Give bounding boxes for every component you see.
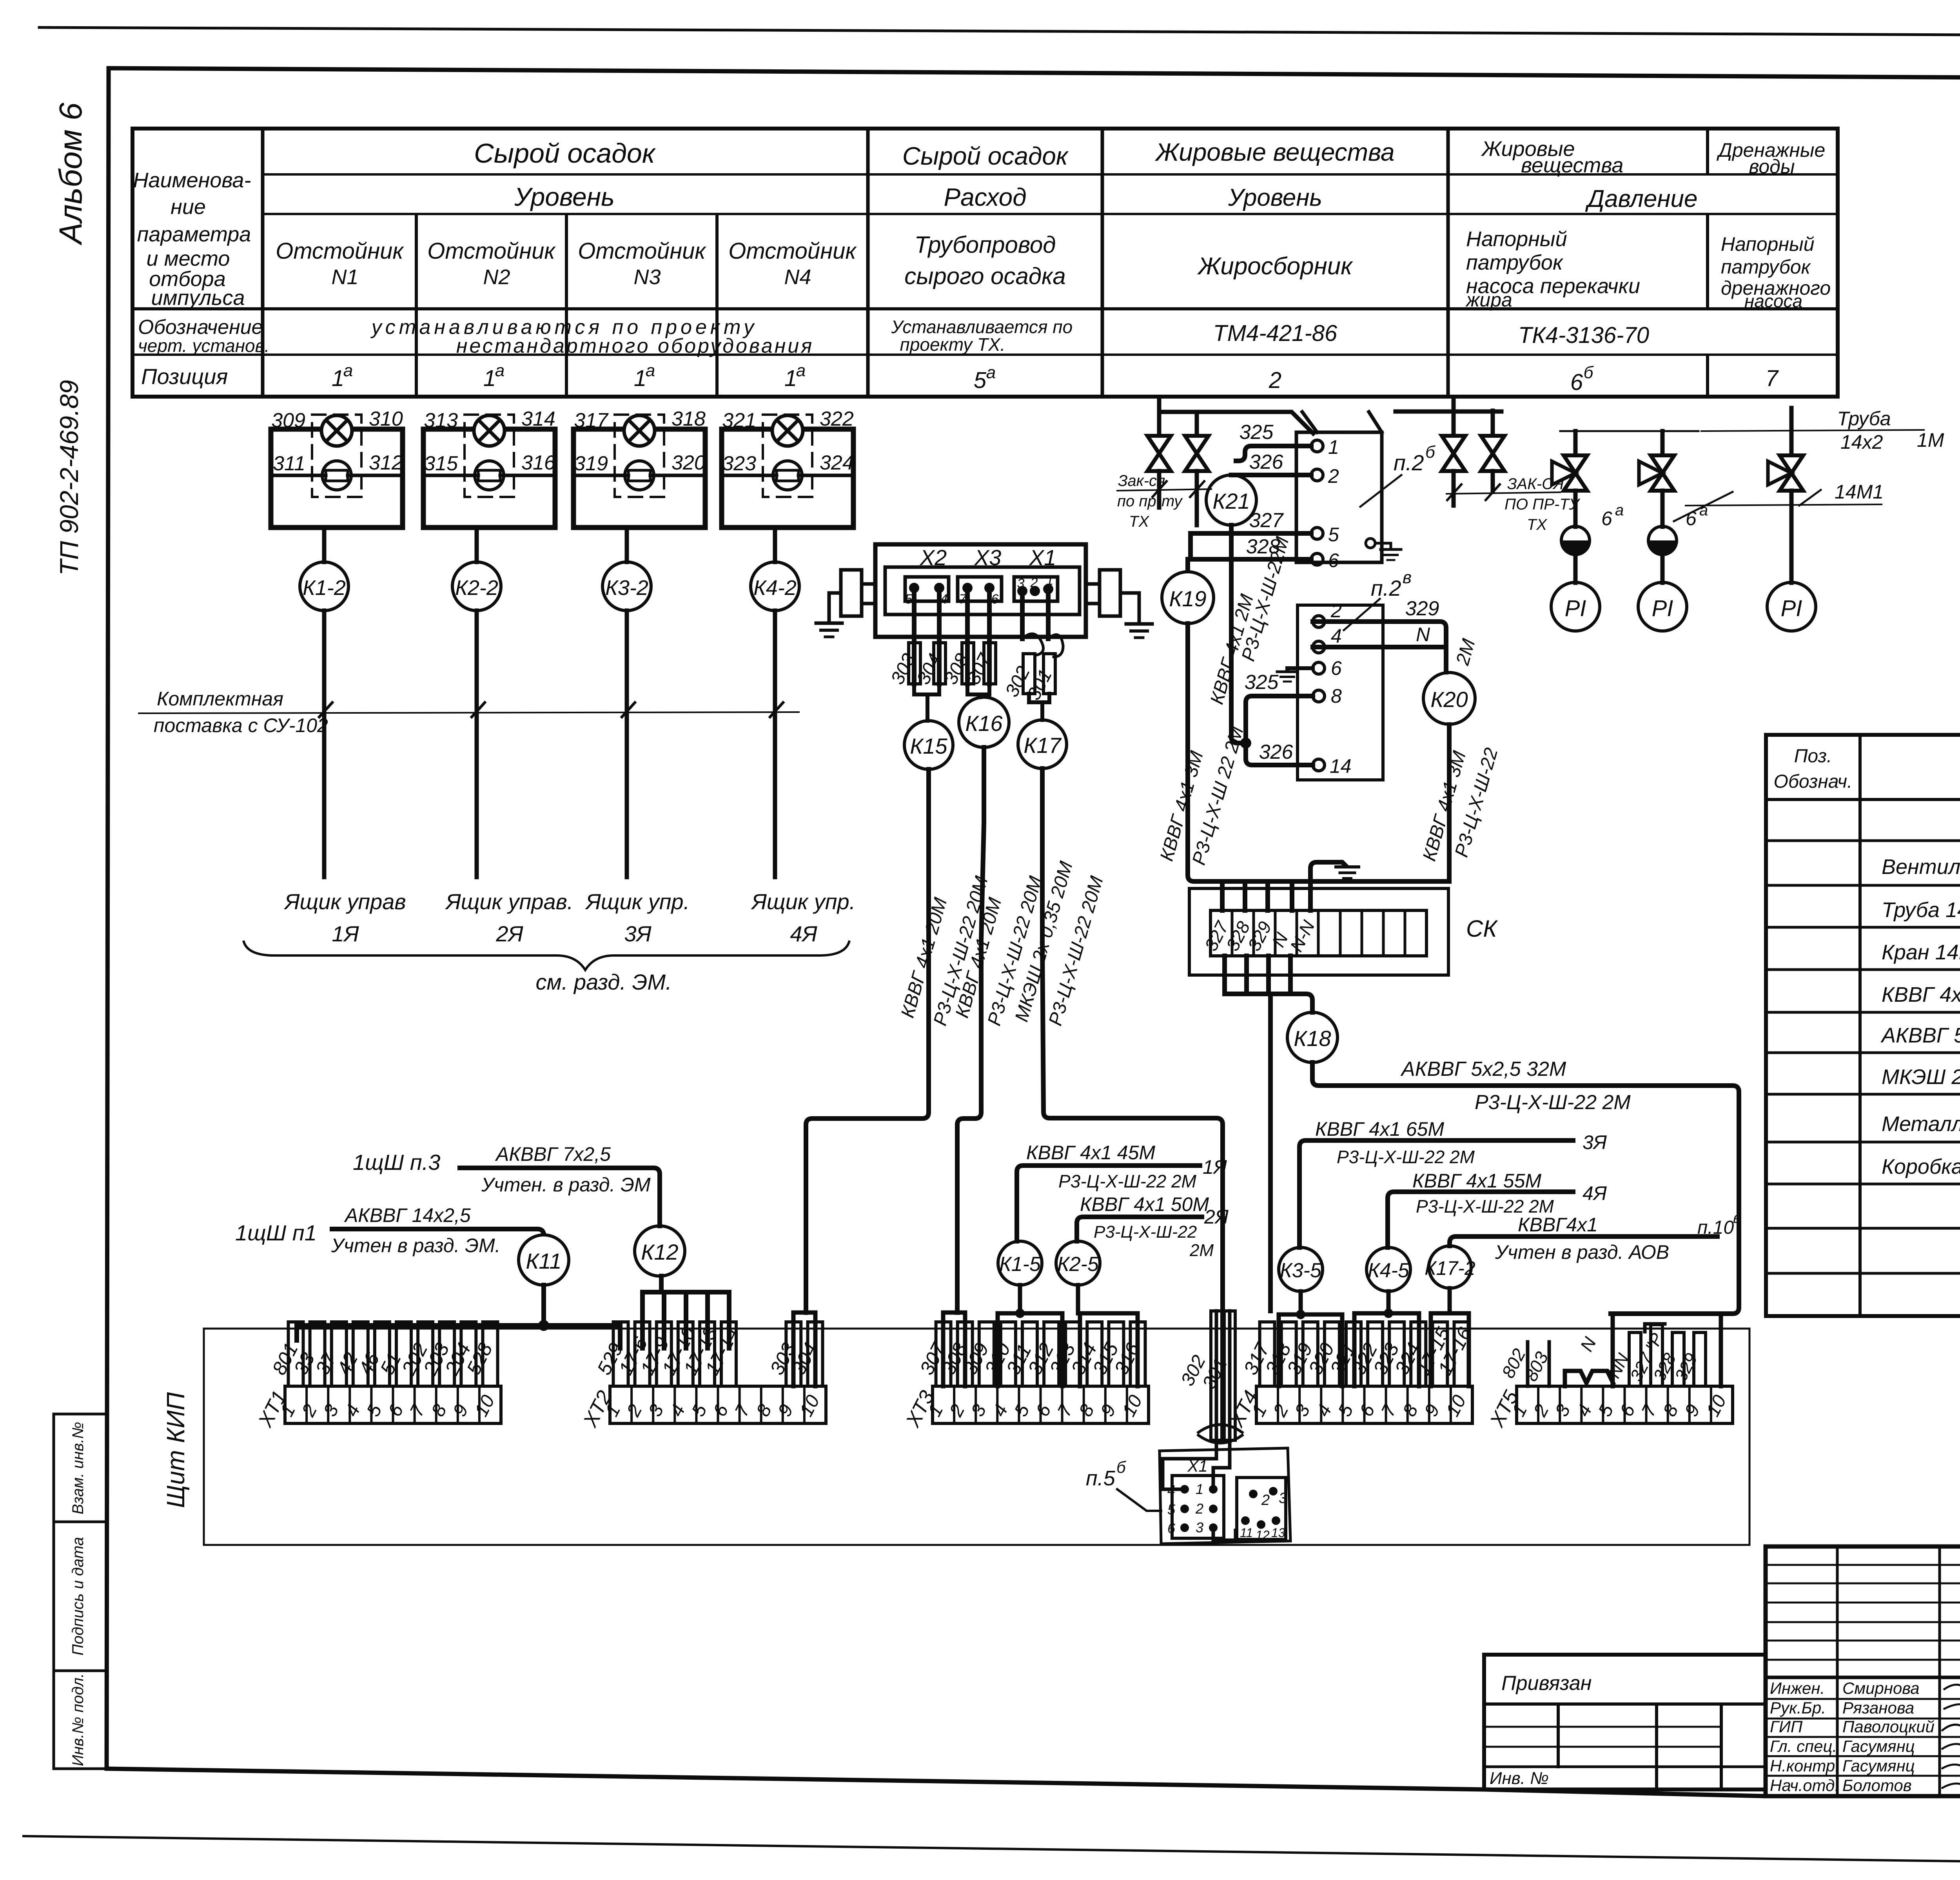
- condensate pot 2: [1648, 526, 1677, 555]
- header table column lines: [261, 129, 265, 397]
- ground symbol right of connector: [1126, 622, 1152, 626]
- left stamp box Инв.№ подл.: [54, 1671, 107, 1769]
- lamp HL 321/322: [772, 415, 803, 446]
- svg-text:Ящик упр.: Ящик упр.: [585, 889, 690, 914]
- X1 pins 4 5 6: [1180, 1485, 1189, 1494]
- svg-text:Нач.отд.: Нач.отд.: [1770, 1776, 1839, 1795]
- cable marker К4-2: [751, 562, 799, 611]
- svg-text:АКВВГ 5х2,5 32М: АКВВГ 5х2,5 32М: [1400, 1058, 1566, 1081]
- svg-text:КВВГ 4х1 50М: КВВГ 4х1 50М: [1080, 1193, 1209, 1215]
- wire tag 308 on ХТ3:2: [958, 1322, 973, 1386]
- BOM header row line: [1766, 798, 1960, 801]
- pin 1 п.2б: [1311, 440, 1323, 452]
- svg-text:РI: РI: [1781, 596, 1802, 621]
- svg-text:Гасумянц: Гасумянц: [1842, 1757, 1915, 1775]
- wire 325 to pin 1: [1236, 446, 1311, 461]
- second valve pair and pressure line: [1396, 397, 1944, 631]
- tap to XT4 tag 317: [1268, 994, 1273, 1311]
- pin 2 п.2б: [1311, 469, 1323, 481]
- terminal strip ХТ2: [610, 1386, 826, 1423]
- svg-text:5: 5: [1328, 524, 1339, 546]
- 301 wire into pin 1: [1213, 1450, 1230, 1485]
- tag 327 «Р»: [1651, 1325, 1662, 1386]
- svg-text:Сырой осадок: Сырой осадок: [902, 142, 1069, 170]
- wire tag 203 on ХТ1:8: [439, 1322, 454, 1386]
- pin 2 of X1: [1030, 586, 1040, 596]
- control module box (К4-2): [722, 429, 853, 528]
- slash tick at wire 3: [621, 702, 636, 718]
- svg-text:2М: 2М: [1189, 1241, 1214, 1260]
- svg-text:ГИП: ГИП: [1770, 1717, 1803, 1736]
- svg-text:1щШ п1: 1щШ п1: [235, 1220, 317, 1245]
- svg-text:ТХ: ТХ: [1527, 516, 1547, 533]
- resistor in circle 315/316: [475, 461, 504, 490]
- svg-text:и место: и место: [147, 247, 230, 270]
- svg-text:2: 2: [1269, 368, 1281, 393]
- svg-text:жира: жира: [1465, 289, 1512, 311]
- cable marker K19: [1162, 572, 1214, 624]
- resistor in circle 323/324: [773, 461, 802, 490]
- svg-text:Отстойник: Отстойник: [276, 238, 404, 264]
- svg-text:1Я: 1Я: [332, 921, 359, 946]
- svg-text:Рук.Бр.: Рук.Бр.: [1770, 1699, 1826, 1717]
- wire tag 314 on ХТ3:8: [1087, 1322, 1102, 1386]
- svg-text:327: 327: [1249, 509, 1284, 532]
- device box п.2б: [1296, 432, 1382, 562]
- cable bracket over XT5 6-9: [1613, 1314, 1721, 1386]
- wire tag 320 on ХТ4:4: [1325, 1322, 1339, 1386]
- svg-text:МКЭШ 2х0,35: МКЭШ 2х0,35: [1882, 1065, 1960, 1089]
- wire tag 302: [1023, 654, 1035, 694]
- cable marker К3-5: [1279, 1247, 1323, 1291]
- svg-text:АКВВГ 5х2,5: АКВВГ 5х2,5: [1880, 1024, 1960, 1047]
- wire tag 315 on ХТ3:9: [1109, 1322, 1123, 1386]
- svg-text:Инжен.: Инжен.: [1770, 1679, 1825, 1697]
- svg-text:Давление: Давление: [1585, 185, 1698, 212]
- K4-5 bracket over 322-324: [1354, 1291, 1419, 1386]
- wire tag 17-16 on ХТ4:10: [1454, 1322, 1469, 1386]
- svg-text:319: 319: [574, 452, 608, 475]
- wire module to К2-2: [475, 528, 479, 562]
- jumper pin3 to right socket: [1213, 1530, 1236, 1540]
- wire tag 17-15 on ХТ4:9: [1432, 1322, 1447, 1386]
- wire К3-2 down: [625, 611, 629, 877]
- svg-text:Отстойник: Отстойник: [427, 238, 556, 264]
- cable entry loops: [1022, 634, 1043, 655]
- cable run K19 down: [1188, 624, 1449, 881]
- BINDING TABLE: [1484, 1655, 1766, 1789]
- right ground lead: [1120, 593, 1139, 623]
- svg-text:РI: РI: [1652, 596, 1673, 621]
- wire tag 313 on ХТ3:7: [1065, 1322, 1080, 1386]
- wire tag 37 on ХТ1:3: [332, 1322, 347, 1386]
- signer labels: [1770, 1679, 1960, 1795]
- three-way valve 14М1: [1780, 455, 1803, 491]
- K12 harness to XT2: [642, 1276, 729, 1348]
- svg-text:14: 14: [1330, 755, 1352, 777]
- svg-text:1щШ п.3: 1щШ п.3: [353, 1150, 440, 1175]
- svg-text:Х2: Х2: [919, 545, 947, 570]
- connector outer housing: [875, 544, 1086, 637]
- svg-text:К16: К16: [965, 711, 1003, 736]
- svg-text:К4-5: К4-5: [1368, 1259, 1410, 1282]
- svg-text:АКВВГ 14х2,5: АКВВГ 14х2,5: [344, 1204, 471, 1226]
- BILL OF MATERIALS TABLE: [1766, 735, 1960, 1316]
- wire tag 307 on ХТ3:1: [936, 1322, 951, 1386]
- resistor in circle 311/312: [322, 461, 351, 490]
- right mounting ear: [1100, 570, 1120, 616]
- svg-text:КВВГ4х1: КВВГ4х1: [1518, 1214, 1598, 1236]
- svg-text:п.5: п.5: [1086, 1467, 1116, 1490]
- svg-text:1: 1: [332, 366, 344, 391]
- cable marker К1-5: [998, 1241, 1042, 1285]
- svg-text:Жиросборник: Жиросборник: [1197, 253, 1353, 280]
- svg-text:316: 316: [521, 451, 555, 474]
- wire tag 33 on ХТ1:2: [310, 1322, 325, 1386]
- svg-text:Жировые вещества: Жировые вещества: [1154, 138, 1394, 166]
- svg-text:Отстойник: Отстойник: [578, 238, 706, 264]
- svg-text:К21: К21: [1212, 489, 1250, 513]
- svg-text:черт. установ.: черт. установ.: [138, 335, 269, 356]
- svg-text:313: 313: [424, 409, 458, 432]
- svg-text:6: 6: [1167, 1520, 1176, 1536]
- svg-text:6: 6: [1601, 508, 1612, 529]
- svg-text:315: 315: [424, 452, 458, 475]
- svg-text:Ящик управ: Ящик управ: [283, 889, 406, 914]
- terminal strip ХТ3: [933, 1386, 1149, 1423]
- wire module to К4-2: [773, 528, 777, 562]
- svg-text:Кран 14М1 ГОСТ 21345: Кран 14М1 ГОСТ 21345-75: [1882, 941, 1960, 964]
- wire K19 stub: [1185, 559, 1190, 571]
- revision area rows: [1766, 1564, 1960, 1566]
- wire 328 to pin 6: [1191, 557, 1311, 562]
- K16 bracket over 307/308: [943, 1313, 965, 1386]
- CONNECTOR ASSEMBLY X2 X3 X1: [816, 544, 1152, 638]
- X1 pins 1 2 3: [1209, 1485, 1218, 1494]
- terminal strip ХТ4: [1256, 1386, 1472, 1423]
- wire tag 801 on ХТ1:1: [289, 1322, 303, 1386]
- svg-text:1: 1: [483, 366, 496, 391]
- svg-text:а: а: [986, 363, 996, 382]
- PARAMETER HEADER TABLE: [132, 129, 1838, 397]
- pin 5 of X2: [909, 583, 919, 593]
- svg-text:К3-5: К3-5: [1280, 1259, 1322, 1282]
- svg-text:Учтен. в разд. ЭМ: Учтен. в разд. ЭМ: [481, 1174, 651, 1196]
- svg-text:патрубок: патрубок: [1466, 251, 1564, 274]
- dashed mounting outline: [312, 415, 361, 497]
- drain line valve (Труба 14х2): [1789, 408, 1794, 455]
- svg-text:К2-5: К2-5: [1057, 1253, 1099, 1276]
- cable marker K12: [635, 1226, 685, 1276]
- svg-text:воды: воды: [1749, 156, 1795, 178]
- device box п.2в: [1298, 605, 1383, 780]
- wire K15 down: [806, 769, 929, 1313]
- junction box CK outline: [1189, 888, 1448, 975]
- vertical cable runs K15 K16 K17: [806, 747, 1223, 1313]
- svg-text:4Я: 4Я: [790, 921, 817, 946]
- ground at pin 6: [1287, 668, 1313, 671]
- cable marker К2-2: [452, 562, 501, 611]
- signer rows: [1766, 1698, 1960, 1700]
- svg-text:п.10: п.10: [1697, 1217, 1734, 1238]
- svg-text:324: 324: [820, 451, 854, 474]
- wire tag 304 on ХТ2:10: [808, 1322, 823, 1386]
- wire tag 312 on ХТ3:6: [1044, 1322, 1059, 1386]
- CK terminal strip: [1210, 910, 1426, 956]
- collector to K18: [1225, 994, 1312, 1012]
- cable marker K17: [1018, 720, 1067, 769]
- svg-text:2Я: 2Я: [495, 921, 523, 946]
- title block outer: [1766, 1546, 1960, 1796]
- svg-text:3: 3: [1279, 1490, 1287, 1507]
- svg-text:3: 3: [1017, 576, 1025, 591]
- svg-text:ние: ние: [171, 195, 206, 219]
- svg-text:317: 317: [574, 409, 609, 432]
- PANEL FEEDER CABLES: [235, 1143, 729, 1348]
- K3-5 bracket over 318-320: [1279, 1291, 1342, 1386]
- svg-text:14х2: 14х2: [1840, 431, 1883, 453]
- svg-text:Р3-Ц-Х-Ш-22 2М: Р3-Ц-Х-Ш-22 2М: [1058, 1171, 1197, 1191]
- ground symbol left of connector: [816, 622, 842, 625]
- svg-text:N1: N1: [331, 265, 358, 289]
- wire tag 529 on ХТ2:1: [613, 1322, 628, 1386]
- cable marker K11: [519, 1235, 569, 1285]
- wire 329 pin2 to K20: [1313, 622, 1446, 672]
- svg-text:N4: N4: [784, 265, 811, 289]
- svg-text:АКВВГ 7х2,5: АКВВГ 7х2,5: [495, 1143, 611, 1165]
- control box labels: [283, 889, 855, 946]
- socket X1 of п.5б: [1172, 1476, 1224, 1538]
- wires X3 to K16: [940, 593, 1009, 747]
- svg-text:321: 321: [722, 409, 756, 432]
- pin 1 of X1: [1043, 584, 1053, 594]
- svg-text:312: 312: [369, 451, 403, 474]
- svg-text:3Я: 3Я: [624, 921, 652, 946]
- svg-text:Наименова-: Наименова-: [133, 169, 251, 192]
- svg-text:сырого осадка: сырого осадка: [904, 263, 1065, 289]
- link seals over cells 3-5: [1565, 1371, 1613, 1386]
- tag pair joiner to K16: [967, 684, 989, 697]
- pin 4 of X2: [934, 583, 944, 593]
- shutoff valve 1: [1147, 436, 1171, 471]
- svg-text:ТК4-3136-70: ТК4-3136-70: [1518, 323, 1649, 348]
- lamp HL 317/318: [624, 415, 655, 446]
- wire tag 17-6 on ХТ2:2: [635, 1322, 650, 1386]
- control module box (К3-2): [573, 429, 705, 528]
- svg-text:Зак-ся: Зак-ся: [1118, 472, 1165, 489]
- wire К1-2 down: [322, 611, 327, 877]
- svg-text:К2-2: К2-2: [455, 576, 498, 600]
- DROP CABLE LINES TO BOXES: [998, 1118, 1741, 1291]
- wire 326 to pin 2 (from K21 top): [1231, 473, 1311, 477]
- svg-text:ТП 902-2-469.89: ТП 902-2-469.89: [54, 380, 83, 575]
- svg-text:Уровень: Уровень: [1228, 184, 1322, 211]
- svg-text:N3: N3: [633, 265, 661, 289]
- svg-text:п.2: п.2: [1394, 450, 1424, 475]
- svg-text:Р3-Ц-Х-Ш-22 2М: Р3-Ц-Х-Ш-22 2М: [1337, 1147, 1475, 1167]
- svg-text:Паволоцкий: Паволоцкий: [1842, 1717, 1935, 1736]
- three-way valve 6а (2): [1651, 455, 1674, 491]
- wire tag 17-13 on ХТ2:5: [700, 1322, 715, 1386]
- svg-text:Ящик управ.: Ящик управ.: [445, 889, 573, 914]
- feed wire from table to valves (left pair): [1159, 397, 1313, 436]
- binding columns: [1557, 1704, 1560, 1767]
- wire module to К3-2: [625, 528, 629, 562]
- BOM column Поз.Обознач.: [1858, 735, 1862, 1316]
- BOM row lines: [1766, 839, 1960, 842]
- signatures: [1942, 1685, 1960, 1788]
- complete delivery note: Комплектная поставка с СУ-102: [138, 688, 800, 736]
- svg-text:322: 322: [820, 408, 854, 430]
- svg-text:Р3-Ц-Х-Ш-22: Р3-Ц-Х-Ш-22: [1094, 1222, 1197, 1242]
- svg-text:3: 3: [1196, 1519, 1203, 1536]
- svg-text:а: а: [495, 361, 505, 380]
- pressure gauge PI 2: [1638, 582, 1687, 631]
- sheet bottom edge line: [24, 1836, 1960, 1869]
- svg-text:1: 1: [1046, 573, 1054, 588]
- wire tag 317 on ХТ4:1: [1260, 1322, 1275, 1386]
- svg-text:311: 311: [273, 452, 305, 475]
- cable K18 to XT5: [1312, 1062, 1739, 1314]
- svg-text:2: 2: [1330, 600, 1342, 622]
- svg-text:Отстойник: Отстойник: [728, 238, 857, 264]
- svg-text:7: 7: [1766, 366, 1779, 391]
- svg-text:К15: К15: [910, 734, 947, 758]
- svg-text:6: 6: [1328, 549, 1339, 571]
- svg-text:N: N: [1416, 624, 1430, 645]
- svg-text:проекту ТХ.: проекту ТХ.: [900, 334, 1005, 355]
- svg-text:К11: К11: [526, 1249, 561, 1273]
- cable gland lens: [1198, 1425, 1242, 1443]
- svg-text:Щит КИП: Щит КИП: [162, 1392, 190, 1508]
- wire K16 down: [957, 747, 984, 1313]
- svg-text:2Я: 2Я: [1204, 1206, 1229, 1228]
- svg-text:по пр-ту: по пр-ту: [1117, 493, 1183, 510]
- cable marker К2-5: [1056, 1241, 1100, 1285]
- shutoff valve 4: [1481, 436, 1504, 471]
- wire tag 17-9 on ХТ2:3: [657, 1322, 671, 1386]
- wire tag 324 on ХТ4:8: [1411, 1322, 1426, 1386]
- K1-5 bracket over 310-312: [998, 1285, 1062, 1386]
- svg-text:Комплектная: Комплектная: [157, 688, 283, 710]
- cable marker K20: [1423, 673, 1475, 724]
- wire tag 316 on ХТ3:10: [1131, 1322, 1145, 1386]
- svg-text:К17-2: К17-2: [1425, 1257, 1475, 1279]
- pin 6 of X3: [984, 583, 995, 593]
- socket X2: [905, 577, 949, 601]
- svg-text:ТХ: ТХ: [1129, 513, 1149, 530]
- wire tag 17-10 on ХТ2:4: [678, 1322, 693, 1386]
- svg-text:12: 12: [1256, 1528, 1270, 1542]
- svg-text:Труба: Труба: [1837, 408, 1891, 430]
- terminal strip ХТ5: [1517, 1386, 1733, 1423]
- header table row lines: [263, 173, 1838, 176]
- svg-text:б: б: [1116, 1458, 1126, 1476]
- wire tag 322 on ХТ4:6: [1368, 1322, 1383, 1386]
- cable marker K16: [959, 697, 1009, 747]
- title block columns: [1836, 1546, 1839, 1796]
- svg-text:323: 323: [722, 452, 756, 475]
- svg-text:К4-2: К4-2: [753, 576, 797, 600]
- svg-text:Подпись и дата: Подпись и дата: [69, 1537, 87, 1656]
- right socket pins 2 3 11 12 13: [1249, 1490, 1258, 1498]
- wire tag 42 on ХТ1:4: [353, 1322, 368, 1386]
- cable marker K18: [1287, 1012, 1338, 1062]
- dashed mounting outline: [465, 415, 514, 497]
- K15 bracket over 303/304: [793, 1313, 815, 1386]
- sheet top edge line: [39, 27, 1960, 37]
- svg-text:Рязанова: Рязанова: [1842, 1699, 1914, 1717]
- TERMINAL STRIPS: [254, 1322, 501, 1431]
- svg-text:14М1: 14М1: [1835, 481, 1884, 503]
- header table outer border: [132, 129, 1838, 397]
- svg-text:Привязан: Привязан: [1501, 1672, 1592, 1695]
- svg-text:5: 5: [974, 368, 987, 393]
- svg-text:Обознач.: Обознач.: [1774, 771, 1853, 792]
- svg-text:2: 2: [1261, 1492, 1270, 1508]
- wires 302/301 down to п.5б: [1216, 1311, 1230, 1450]
- pressure gauge PI 3: [1767, 582, 1816, 631]
- binding rows: [1484, 1702, 1766, 1706]
- wires into CK box: [1222, 881, 1292, 910]
- svg-text:Вентиль 3В-2М ГОСТ 2323: Вентиль 3В-2М ГОСТ 23230: [1882, 855, 1960, 879]
- svg-text:Металлорукав Р3-Ц-Х-Ш-22: Металлорукав Р3-Ц-Х-Ш-22: [1882, 1112, 1960, 1136]
- wire K11 to bus: [541, 1285, 546, 1325]
- shutoff valve 3: [1442, 436, 1465, 471]
- svg-text:1М: 1М: [1917, 429, 1944, 451]
- wire tag 309 on ХТ3:3: [979, 1322, 994, 1386]
- svg-text:Х1: Х1: [1029, 545, 1056, 570]
- KIP PANEL BOX: [162, 1329, 1749, 1545]
- svg-text:Позиция: Позиция: [141, 364, 228, 389]
- svg-text:6: 6: [1570, 370, 1583, 395]
- lamp HL 313/314: [474, 415, 505, 446]
- svg-text:Р3-Ц-Х-Ш-22 2М: Р3-Ц-Х-Ш-22 2М: [1475, 1091, 1631, 1114]
- svg-text:К12: К12: [641, 1240, 678, 1264]
- svg-text:Расход: Расход: [944, 183, 1026, 211]
- svg-text:а: а: [646, 361, 655, 380]
- cable marker К17-2: [1429, 1246, 1471, 1288]
- wire К4-2 down: [773, 611, 777, 877]
- wire tag 319 on ХТ4:3: [1303, 1322, 1318, 1386]
- pin 2 п.2в: [1313, 616, 1325, 627]
- svg-text:1: 1: [634, 366, 646, 391]
- svg-text:314: 314: [521, 408, 555, 430]
- svg-text:Коробка соединительная КС-10: Коробка соединительная КС-10: [1882, 1155, 1960, 1178]
- 302 wire into pin 4: [1163, 1450, 1216, 1489]
- svg-text:326: 326: [1259, 741, 1293, 763]
- main split line: [1766, 1676, 1960, 1679]
- pin 7 of X3: [962, 583, 973, 593]
- wire tag 310 on ХТ3:4: [1001, 1322, 1016, 1386]
- wire tag 51 on ХТ1:6: [396, 1322, 411, 1386]
- tag NN: [1629, 1332, 1641, 1386]
- wire tag 301: [1044, 654, 1055, 694]
- svg-text:параметра: параметра: [137, 223, 251, 246]
- wire stubs 802 803: [1528, 1342, 1549, 1386]
- wire tag 528 on ХТ1:10: [483, 1322, 498, 1386]
- LEFT MARGIN: [53, 102, 107, 1769]
- svg-text:Ящик упр.: Ящик упр.: [751, 889, 856, 914]
- svg-text:К20: К20: [1430, 687, 1468, 712]
- wire tag 17-14 on ХТ2:6: [721, 1322, 736, 1386]
- brace under box labels: [243, 941, 849, 994]
- svg-text:К18: К18: [1294, 1026, 1331, 1051]
- svg-text:Учтен в разд. ЭМ.: Учтен в разд. ЭМ.: [331, 1235, 501, 1256]
- wires X2 to K15: [887, 593, 953, 769]
- ground pin п.2б: [1366, 538, 1375, 548]
- svg-text:РI: РI: [1565, 596, 1586, 621]
